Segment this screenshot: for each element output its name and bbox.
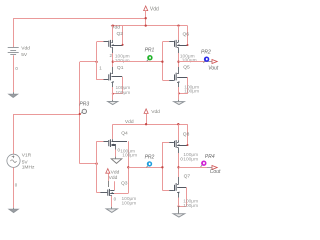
svg-text:Vdd: Vdd xyxy=(151,109,160,115)
svg-text:100μm: 100μm xyxy=(116,90,131,96)
svg-text:Q7: Q7 xyxy=(184,174,191,180)
svg-text:Cout: Cout xyxy=(210,169,221,175)
svg-text:PR3: PR3 xyxy=(79,101,89,107)
svg-text:1MHz: 1MHz xyxy=(22,165,35,171)
svg-text:PR1: PR1 xyxy=(145,48,155,54)
svg-text:100μm: 100μm xyxy=(183,157,198,163)
svg-text:V1R: V1R xyxy=(22,152,32,158)
svg-text:5V: 5V xyxy=(21,52,28,58)
svg-text:Q2: Q2 xyxy=(117,31,124,37)
svg-text:100μm: 100μm xyxy=(184,89,199,95)
svg-text:100μm: 100μm xyxy=(183,203,198,209)
svg-text:Q6: Q6 xyxy=(183,31,190,37)
svg-text:Q3: Q3 xyxy=(121,180,128,186)
svg-text:Vdd: Vdd xyxy=(21,45,30,51)
svg-text:PR2: PR2 xyxy=(201,49,211,55)
svg-text:100μm: 100μm xyxy=(122,152,137,158)
svg-text:PR2: PR2 xyxy=(145,155,155,161)
svg-text:Vout: Vout xyxy=(208,66,219,72)
svg-text:Q4: Q4 xyxy=(121,130,128,136)
svg-text:PR4: PR4 xyxy=(205,154,215,160)
svg-text:Q1: Q1 xyxy=(117,65,124,71)
svg-text:Vdd: Vdd xyxy=(150,6,159,12)
svg-text:100μm: 100μm xyxy=(122,201,137,207)
svg-text:100μm: 100μm xyxy=(182,57,197,63)
svg-text:Vdd: Vdd xyxy=(109,175,118,181)
svg-text:Vdd: Vdd xyxy=(111,169,120,175)
svg-text:5V: 5V xyxy=(22,159,29,165)
svg-text:Vdd: Vdd xyxy=(125,119,134,125)
svg-text:Q8: Q8 xyxy=(183,131,190,137)
svg-text:Q5: Q5 xyxy=(183,65,190,71)
